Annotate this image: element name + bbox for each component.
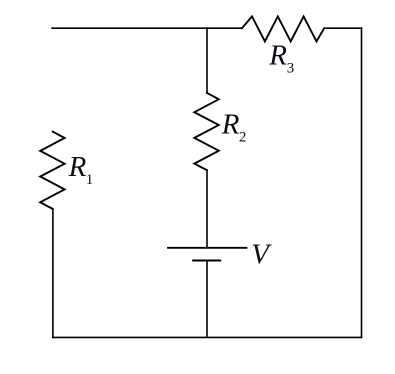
battery V short plate (negative): [192, 260, 221, 262]
battery V long plate (positive): [167, 247, 247, 249]
wire node to R3 left lead: [207, 27, 242, 29]
resistor R2: [194, 93, 219, 170]
wire R3 right lead to top-right corner: [324, 27, 361, 29]
resistor R3: [242, 16, 324, 41]
wire right vertical: [361, 28, 363, 337]
resistor R1: [40, 132, 64, 209]
wire top horizontal from left end to node: [52, 27, 207, 29]
wire bottom horizontal: [53, 336, 362, 338]
wire left vertical (R1 bottom to bottom-left corner): [52, 209, 54, 338]
wire battery to bottom wire: [206, 261, 208, 338]
wire middle vertical from node to R2: [206, 28, 208, 93]
wire R2 to battery top plate: [206, 170, 208, 248]
